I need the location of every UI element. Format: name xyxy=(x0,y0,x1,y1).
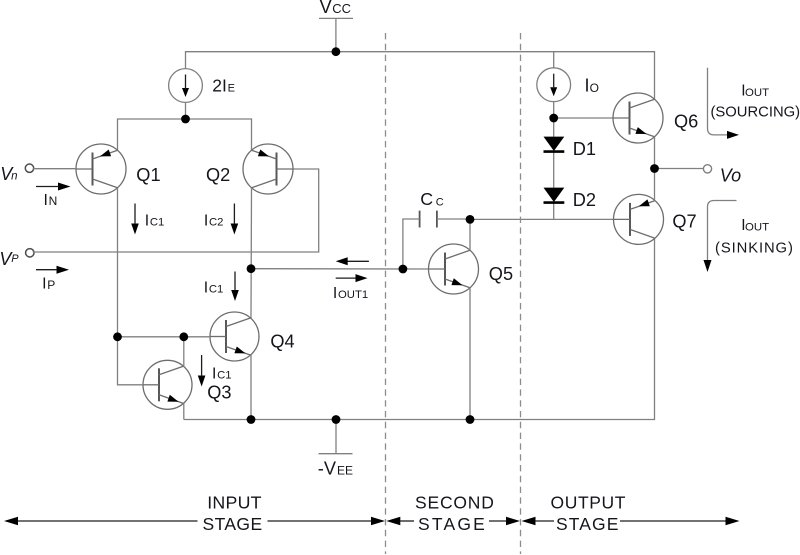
svg-text:N: N xyxy=(49,194,58,208)
svg-text:D1: D1 xyxy=(573,139,596,159)
svg-text:I: I xyxy=(42,276,46,293)
svg-text:2I: 2I xyxy=(212,75,227,95)
svg-text:P: P xyxy=(47,278,55,292)
svg-text:I: I xyxy=(333,285,337,302)
svg-text:I: I xyxy=(204,279,208,296)
svg-text:(SOURCING): (SOURCING) xyxy=(711,104,800,120)
svg-text:I: I xyxy=(44,192,48,209)
svg-text:STAGE: STAGE xyxy=(556,514,620,534)
svg-text:(SINKING): (SINKING) xyxy=(715,241,794,257)
svg-text:C: C xyxy=(420,189,433,209)
svg-text:Q6: Q6 xyxy=(674,111,698,131)
svg-text:C1: C1 xyxy=(150,217,164,229)
svg-text:D2: D2 xyxy=(573,190,596,210)
svg-text:SECOND: SECOND xyxy=(415,492,495,512)
svg-text:EE: EE xyxy=(337,464,353,478)
svg-text:C: C xyxy=(436,196,444,208)
svg-text:OUT: OUT xyxy=(745,87,769,99)
svg-text:Vo: Vo xyxy=(720,165,741,185)
svg-text:E: E xyxy=(228,82,235,94)
svg-text:P: P xyxy=(11,253,19,265)
svg-text:Q3: Q3 xyxy=(207,383,231,403)
svg-text:OUT: OUT xyxy=(745,221,769,233)
svg-text:C2: C2 xyxy=(209,217,223,229)
svg-text:I: I xyxy=(204,212,208,229)
svg-text:INPUT: INPUT xyxy=(207,492,262,512)
svg-text:C1: C1 xyxy=(209,284,223,296)
svg-text:V: V xyxy=(320,0,332,17)
svg-text:STAGE: STAGE xyxy=(203,514,263,534)
svg-text:Q5: Q5 xyxy=(489,264,513,284)
svg-text:n: n xyxy=(11,171,17,183)
svg-text:O: O xyxy=(590,81,599,95)
svg-text:Q4: Q4 xyxy=(270,331,294,351)
svg-text:I: I xyxy=(145,212,149,229)
svg-text:C1: C1 xyxy=(217,370,231,382)
svg-text:I: I xyxy=(212,365,216,382)
svg-text:OUT1: OUT1 xyxy=(338,289,368,301)
svg-text:Q1: Q1 xyxy=(136,165,160,185)
svg-text:CC: CC xyxy=(332,1,351,16)
svg-text:-V: -V xyxy=(318,459,337,479)
svg-text:STAGE: STAGE xyxy=(418,514,487,534)
svg-text:Q2: Q2 xyxy=(206,165,230,185)
svg-text:OUTPUT: OUTPUT xyxy=(551,492,627,512)
svg-text:Q7: Q7 xyxy=(672,211,696,231)
